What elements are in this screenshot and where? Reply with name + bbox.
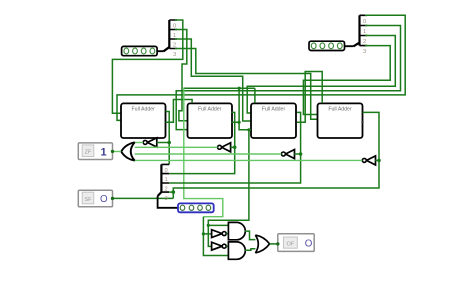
wire carry C1: [166, 100, 193, 123]
svg-text:OF: OF: [287, 242, 295, 248]
wire carry C2 (high): [183, 87, 255, 256]
inverter N3: [281, 150, 300, 159]
svg-text:3: 3: [363, 49, 366, 55]
wire N2 out: [131, 146, 218, 148]
wire N1 out: [133, 142, 143, 144]
output pin SF: [78, 190, 114, 207]
splitter SP1: [164, 20, 178, 58]
wire pin B to splitter: [345, 45, 354, 47]
svg-text:2: 2: [363, 39, 366, 45]
svg-text:0: 0: [173, 24, 176, 30]
svg-text:0: 0: [165, 168, 168, 174]
wire splitter to output display: [158, 196, 178, 208]
svg-text:O: O: [100, 194, 108, 205]
output display (selected): [178, 203, 214, 212]
wire sum S3: [169, 112, 302, 183]
svg-text:Full Adder: Full Adder: [262, 107, 286, 113]
wire B bit1: [176, 26, 400, 130]
wire B bit2: [247, 36, 395, 114]
svg-text:ZF: ZF: [85, 150, 92, 156]
wire sum S4: [172, 112, 381, 198]
splitter SP2: [354, 15, 368, 55]
full adder U3: [251, 103, 296, 138]
svg-text:1: 1: [173, 33, 176, 39]
wire pin A to splitter: [157, 50, 163, 52]
wire stub3 jog: [169, 191, 173, 193]
buffer-inverter Na: [212, 230, 229, 238]
svg-text:2: 2: [173, 43, 176, 49]
input pin B: [309, 41, 345, 50]
inverter N4: [362, 156, 379, 165]
wire sum S2: [169, 112, 236, 173]
wire N4 out: [133, 159, 362, 161]
output pin ZF: [78, 143, 114, 160]
svg-text:O: O: [305, 239, 313, 250]
wire SF net: [114, 197, 174, 199]
wire N3 out: [131, 153, 282, 155]
buffer-inverter Nb: [212, 242, 229, 250]
svg-text:1: 1: [100, 146, 106, 158]
svg-text:Full Adder: Full Adder: [328, 107, 352, 113]
wire G2 to OR2: [245, 249, 256, 251]
svg-text:0: 0: [363, 19, 366, 25]
or gate ZF: [121, 142, 135, 160]
svg-text:Full Adder: Full Adder: [198, 107, 222, 113]
wire G1 to OR2: [245, 231, 256, 240]
svg-text:3: 3: [173, 52, 176, 58]
wire A bit3: [175, 49, 319, 120]
wire carry C3: [297, 72, 322, 123]
and gate G2: [228, 242, 245, 259]
and gate G1: [228, 222, 245, 239]
output pin OF: [276, 234, 314, 252]
wire B bit0: [117, 15, 405, 120]
wire A bit1: [175, 30, 189, 121]
svg-text:SF: SF: [84, 197, 92, 203]
wire B bit3: [303, 46, 390, 115]
svg-text:Full Adder: Full Adder: [132, 107, 156, 113]
full adder U1: [121, 103, 166, 138]
svg-text:1: 1: [363, 29, 366, 35]
splitter SP3 output: [158, 164, 170, 201]
input pin A: [122, 46, 158, 55]
wire sum S1: [166, 112, 172, 165]
wire OR2 to OF: [270, 243, 278, 245]
wire OR to ZF: [113, 151, 121, 153]
full adder U2: [188, 103, 233, 138]
svg-text:2: 2: [165, 186, 168, 192]
inverter N1: [143, 138, 169, 147]
svg-text:3: 3: [165, 196, 168, 202]
svg-text:1: 1: [165, 177, 168, 183]
inverter N2: [218, 143, 235, 152]
or gate OF: [255, 235, 269, 253]
wire carry C4 to overflow logic: [207, 121, 364, 247]
full adder U4: [318, 103, 363, 138]
wire A bit0: [112, 20, 182, 113]
wire A bit2: [175, 39, 252, 121]
